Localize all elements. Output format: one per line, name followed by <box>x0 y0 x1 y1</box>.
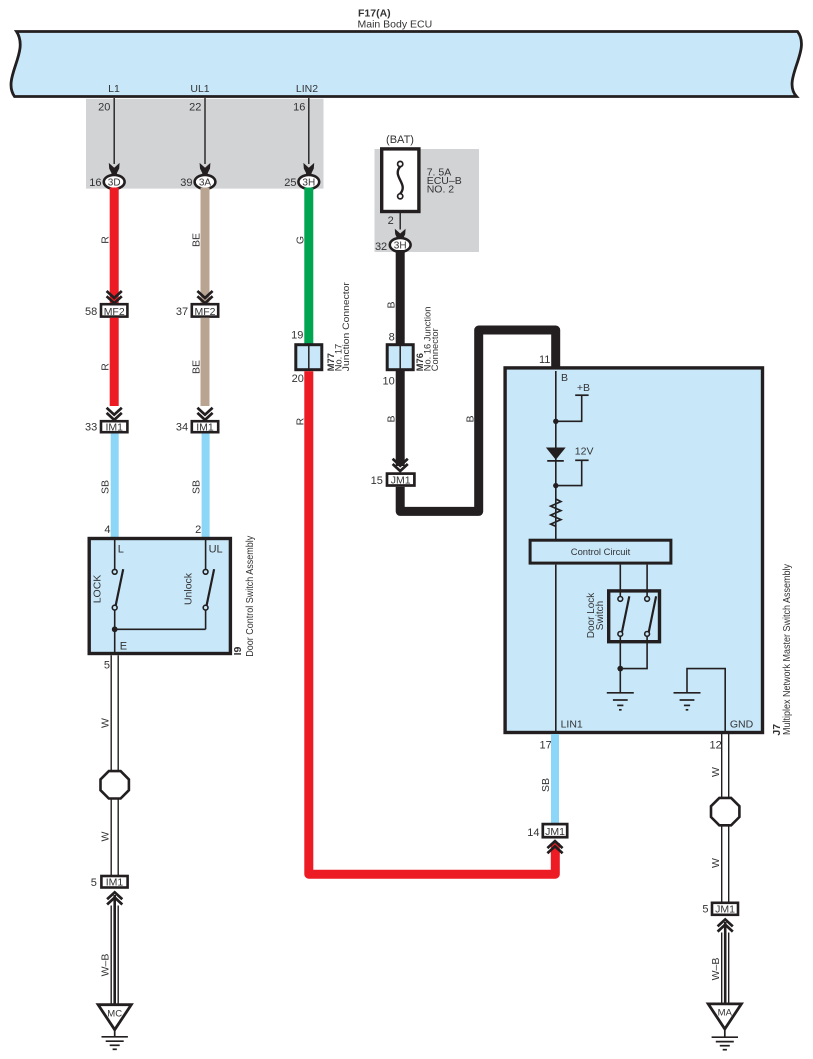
svg-text:UL: UL <box>209 544 223 556</box>
svg-text:LOCK: LOCK <box>92 575 104 604</box>
svg-text:B: B <box>386 301 398 308</box>
wire control to switch left <box>619 565 621 591</box>
svg-text:W–B: W–B <box>710 958 722 981</box>
ECU band F17(A) Main Body ECU <box>11 32 801 97</box>
svg-text:(BAT): (BAT) <box>386 134 414 146</box>
wire BE beige middle <box>201 318 210 406</box>
svg-text:W: W <box>710 858 722 868</box>
wire lead UL1 <box>204 98 206 164</box>
fuse box 7.5A ECU-B NO.2 <box>382 149 419 212</box>
wire LIN1 internal <box>555 565 557 733</box>
wire lead LIN2 <box>308 98 310 164</box>
12V terminal bar <box>575 459 588 461</box>
svg-text:IM1: IM1 <box>196 421 214 433</box>
svg-text:R: R <box>100 363 112 371</box>
wire BE beige upper <box>201 188 210 305</box>
splice octagon right <box>711 798 739 825</box>
fuse lead <box>399 213 401 230</box>
wire junction horizontal <box>115 628 206 630</box>
connector 3H fuse <box>375 238 411 253</box>
junction dot E <box>112 626 118 632</box>
junction connector M76 <box>387 345 413 370</box>
svg-text:22: 22 <box>189 101 201 113</box>
svg-text:L: L <box>118 544 124 556</box>
svg-text:B: B <box>561 372 568 384</box>
svg-text:NO. 2: NO. 2 <box>427 184 455 196</box>
svg-text:3D: 3D <box>108 178 121 189</box>
svg-text:IM1: IM1 <box>106 877 124 889</box>
ground symbol MC <box>102 1030 128 1050</box>
svg-text:LIN1: LIN1 <box>561 719 583 731</box>
connector IM1 (5) <box>91 876 128 889</box>
svg-text:12: 12 <box>710 740 722 752</box>
connector JM1 (5) <box>702 903 738 916</box>
svg-text:39: 39 <box>180 177 192 189</box>
svg-text:Door Control Switch Assembly: Door Control Switch Assembly <box>245 536 256 657</box>
wire R red long routed <box>309 371 556 874</box>
svg-text:Control Circuit: Control Circuit <box>571 546 631 557</box>
svg-text:8: 8 <box>389 332 395 344</box>
ground symbol internal 2 <box>674 693 701 710</box>
fuse element <box>398 161 403 199</box>
svg-text:L1: L1 <box>108 83 120 95</box>
svg-text:Junction Connector: Junction Connector <box>341 282 351 371</box>
chevron arrow into IM1 (33) <box>107 408 122 420</box>
wire SB left <box>111 434 119 538</box>
connector MF2 (58) <box>85 304 127 318</box>
chevron arrow into MF2 (58) <box>107 291 122 303</box>
diode D <box>546 448 566 461</box>
chevron arrow up into JM1 (14) <box>547 841 562 853</box>
ground symbol internal 1 <box>607 693 634 710</box>
connector JM1 (14) <box>527 824 567 839</box>
svg-text:3H: 3H <box>302 178 315 189</box>
svg-text:W: W <box>710 767 722 777</box>
svg-text:Main Body ECU: Main Body ECU <box>358 19 433 31</box>
svg-text:B: B <box>464 415 476 422</box>
svg-text:Multiplex Network Master Switc: Multiplex Network Master Switch Assembly <box>782 564 793 735</box>
wire W white from E pin <box>111 655 118 875</box>
connector IM1 (33) <box>85 421 127 433</box>
gray patch behind top connectors <box>86 99 324 189</box>
wire L internal <box>114 539 116 570</box>
svg-text:33: 33 <box>85 422 97 434</box>
svg-text:W: W <box>99 718 111 728</box>
svg-text:I9: I9 <box>232 646 244 655</box>
svg-text:10: 10 <box>383 376 395 388</box>
svg-text:SB: SB <box>540 778 552 792</box>
svg-text:25: 25 <box>284 177 296 189</box>
chevron arrow up from W-B right <box>718 919 733 931</box>
wire G green <box>304 188 313 345</box>
svg-text:2: 2 <box>388 215 394 227</box>
multiplex network master switch assembly box J7 <box>505 368 762 733</box>
svg-text:14: 14 <box>527 827 539 839</box>
wire lead L1 <box>113 98 115 164</box>
svg-text:20: 20 <box>292 373 304 385</box>
svg-text:MA: MA <box>718 1008 733 1019</box>
+B terminal bar <box>575 394 588 396</box>
connector 3H top <box>284 175 319 189</box>
door lock switch contact right <box>645 591 656 643</box>
wire W-B left <box>111 895 118 1005</box>
connector 3A <box>180 175 215 189</box>
svg-text:BE: BE <box>191 233 203 247</box>
svg-text:W–B: W–B <box>99 954 111 977</box>
ground symbol MA <box>712 1029 738 1050</box>
connector arrow into 3H <box>303 163 314 178</box>
wire lock bottom to E <box>114 610 116 654</box>
wire R red middle <box>110 318 119 406</box>
svg-text:37: 37 <box>176 306 188 318</box>
connector arrow into 3H fuse <box>395 229 406 244</box>
wire GND hook <box>687 669 725 733</box>
wire B thick routed to pin 11 <box>400 330 556 511</box>
svg-text:JM1: JM1 <box>391 475 411 487</box>
connector arrow into 3D <box>109 163 120 178</box>
svg-text:5: 5 <box>702 904 708 916</box>
svg-text:5: 5 <box>104 659 110 671</box>
connector IM1 (34) <box>176 421 218 433</box>
ground point MC <box>98 1005 131 1030</box>
connector arrow into 3A <box>200 163 211 178</box>
junction connector M77 <box>296 345 322 370</box>
gray patch behind fuse <box>375 149 480 252</box>
door lock switch box <box>609 591 660 642</box>
svg-text:IM1: IM1 <box>105 421 123 433</box>
svg-text:16: 16 <box>89 177 101 189</box>
svg-text:58: 58 <box>85 306 97 318</box>
svg-text:16: 16 <box>293 101 305 113</box>
svg-text:W: W <box>99 831 111 841</box>
splice octagon left <box>101 771 129 798</box>
svg-text:4: 4 <box>104 524 110 536</box>
wire control to switch right <box>646 565 648 591</box>
svg-text:5: 5 <box>91 877 97 889</box>
svg-text:G: G <box>294 236 306 244</box>
svg-text:GND: GND <box>730 719 754 731</box>
svg-text:JM1: JM1 <box>545 826 565 838</box>
svg-text:Unlock: Unlock <box>183 572 195 605</box>
junction dot +B <box>553 419 558 424</box>
Unlock switch <box>203 569 214 610</box>
svg-text:+B: +B <box>577 382 590 394</box>
svg-text:E: E <box>120 640 127 652</box>
wire SB right-of-pair <box>202 434 210 538</box>
svg-text:Connector: Connector <box>430 328 440 371</box>
wire UL internal <box>205 539 207 570</box>
door control switch assembly box I9 <box>89 539 230 654</box>
wire SB from LIN1 <box>551 734 559 823</box>
svg-text:UL1: UL1 <box>190 83 209 95</box>
connector MF2 (37) <box>176 304 218 318</box>
wire B black vertical <box>396 250 405 466</box>
svg-text:LIN2: LIN2 <box>296 83 318 95</box>
svg-text:12V: 12V <box>575 446 594 458</box>
svg-text:3H: 3H <box>394 241 407 252</box>
control circuit box <box>530 540 671 563</box>
LOCK switch <box>112 569 123 610</box>
chevron arrow up from W-B left <box>107 892 122 904</box>
junction dot switch <box>617 666 623 672</box>
svg-text:32: 32 <box>375 241 387 253</box>
svg-text:19: 19 <box>291 330 303 342</box>
svg-text:SB: SB <box>191 480 203 494</box>
svg-text:MF2: MF2 <box>195 306 216 318</box>
chevron arrow into IM1 (34) <box>197 408 212 420</box>
svg-text:MC: MC <box>107 1009 122 1020</box>
wire unlock bottom <box>205 610 207 629</box>
svg-text:34: 34 <box>176 422 188 434</box>
svg-text:15: 15 <box>371 475 383 487</box>
chevron arrow into MF2 (37) <box>197 291 212 303</box>
connector 3D <box>89 175 124 189</box>
svg-text:2: 2 <box>195 524 201 536</box>
svg-text:SB: SB <box>100 480 112 494</box>
wire switch right to junction <box>620 643 647 668</box>
svg-text:3A: 3A <box>199 178 212 189</box>
ground point MA <box>708 1004 741 1029</box>
wire W-B right <box>722 922 729 1004</box>
wire R red upper <box>110 188 119 305</box>
svg-text:17: 17 <box>540 740 552 752</box>
+B tap wire <box>556 395 582 421</box>
12V tap wire <box>556 460 582 485</box>
wire switch left to ground <box>619 643 621 692</box>
connector JM1 (15) <box>387 474 414 487</box>
door lock switch contact left <box>618 591 629 643</box>
svg-text:R: R <box>100 236 112 244</box>
svg-text:B: B <box>386 415 398 422</box>
internal wire from pin 11 <box>555 371 557 540</box>
svg-text:20: 20 <box>98 101 110 113</box>
chevron arrow into JM1 (15) <box>393 459 408 471</box>
resistor R internal <box>551 499 561 526</box>
svg-text:Switch: Switch <box>595 601 606 630</box>
svg-text:BE: BE <box>191 360 203 374</box>
junction dot 12V <box>553 483 558 488</box>
svg-text:11: 11 <box>539 354 550 366</box>
svg-text:MF2: MF2 <box>104 306 125 318</box>
wire W white from GND pin <box>722 734 729 902</box>
svg-text:JM1: JM1 <box>715 904 735 916</box>
